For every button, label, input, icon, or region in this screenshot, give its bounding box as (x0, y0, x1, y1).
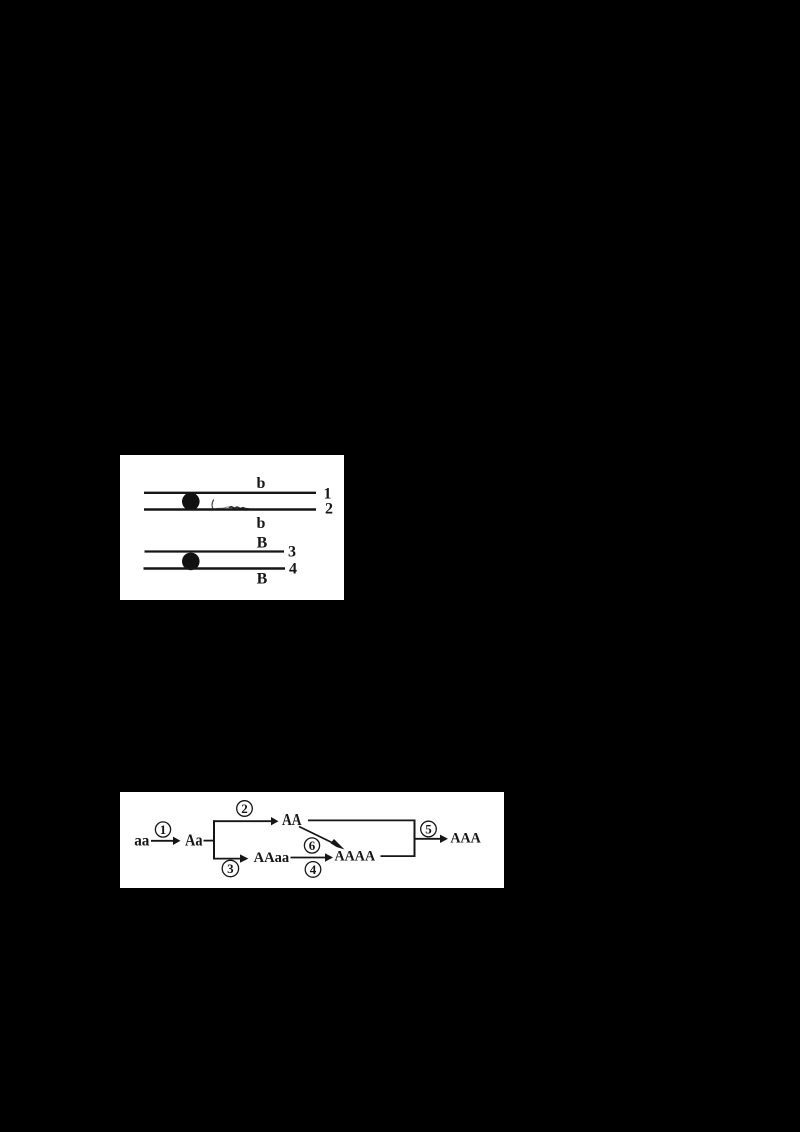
svg-text:Aa: Aa (185, 831, 203, 850)
svg-text:aa: aa (134, 833, 149, 850)
lower branch arrow (to AAaa) (213, 854, 248, 862)
svg-text:6: 6 (309, 838, 316, 853)
svg-text:B: B (257, 535, 268, 552)
chromosome 4 (chromatid line) (144, 567, 286, 569)
chromosome 1 (chromatid line) (144, 492, 316, 494)
arrow 1 (aa to Aa) (151, 837, 181, 845)
diagonal arrow 6 (AA to AAAA) (299, 827, 345, 850)
centromere (pair B) (182, 553, 200, 571)
svg-text:3: 3 (227, 861, 234, 876)
panel: polyploid breeding pathway diagram (120, 792, 504, 888)
svg-text:2: 2 (325, 501, 333, 518)
dark pencil scribble (229, 507, 248, 510)
step circle 1 (155, 822, 170, 837)
right rail vertical (414, 820, 416, 858)
step circle 4 (305, 862, 321, 878)
svg-text:2: 2 (241, 801, 248, 816)
svg-text:1: 1 (160, 822, 167, 837)
svg-text:B: B (257, 571, 268, 588)
step circle 3 (222, 860, 238, 876)
svg-text:AAaa: AAaa (254, 850, 290, 866)
step circle 2 (237, 801, 253, 817)
svg-text:3: 3 (288, 544, 296, 561)
faint pencil squiggle (216, 507, 233, 509)
panel: chromosome pairs diagram (120, 455, 344, 600)
svg-text:b: b (257, 515, 266, 532)
connector dash (Aa to branch) (204, 840, 215, 842)
arrow 4 (AAaa to AAAA) (291, 853, 334, 861)
faint pencil mark ( (212, 500, 214, 510)
branch vertical line (213, 820, 215, 859)
svg-text:4: 4 (289, 560, 297, 577)
svg-text:5: 5 (425, 822, 432, 837)
wire AAAA to right rail (381, 855, 416, 857)
svg-text:4: 4 (310, 862, 317, 877)
upper branch arrow (to AA) (213, 817, 279, 825)
step circle 5 (421, 821, 437, 837)
chromosome 2 (chromatid line) (144, 508, 316, 510)
svg-text:b: b (257, 475, 266, 492)
chromosome 3 (chromatid line) (145, 550, 285, 552)
centromere (pair b) (182, 493, 200, 511)
step circle 6 (304, 838, 319, 853)
svg-text:AAA: AAA (450, 831, 481, 847)
arrow 5 (rail to AAA) (415, 835, 449, 843)
svg-text:AAAA: AAAA (335, 849, 376, 865)
wire AA to right rail (308, 819, 416, 821)
